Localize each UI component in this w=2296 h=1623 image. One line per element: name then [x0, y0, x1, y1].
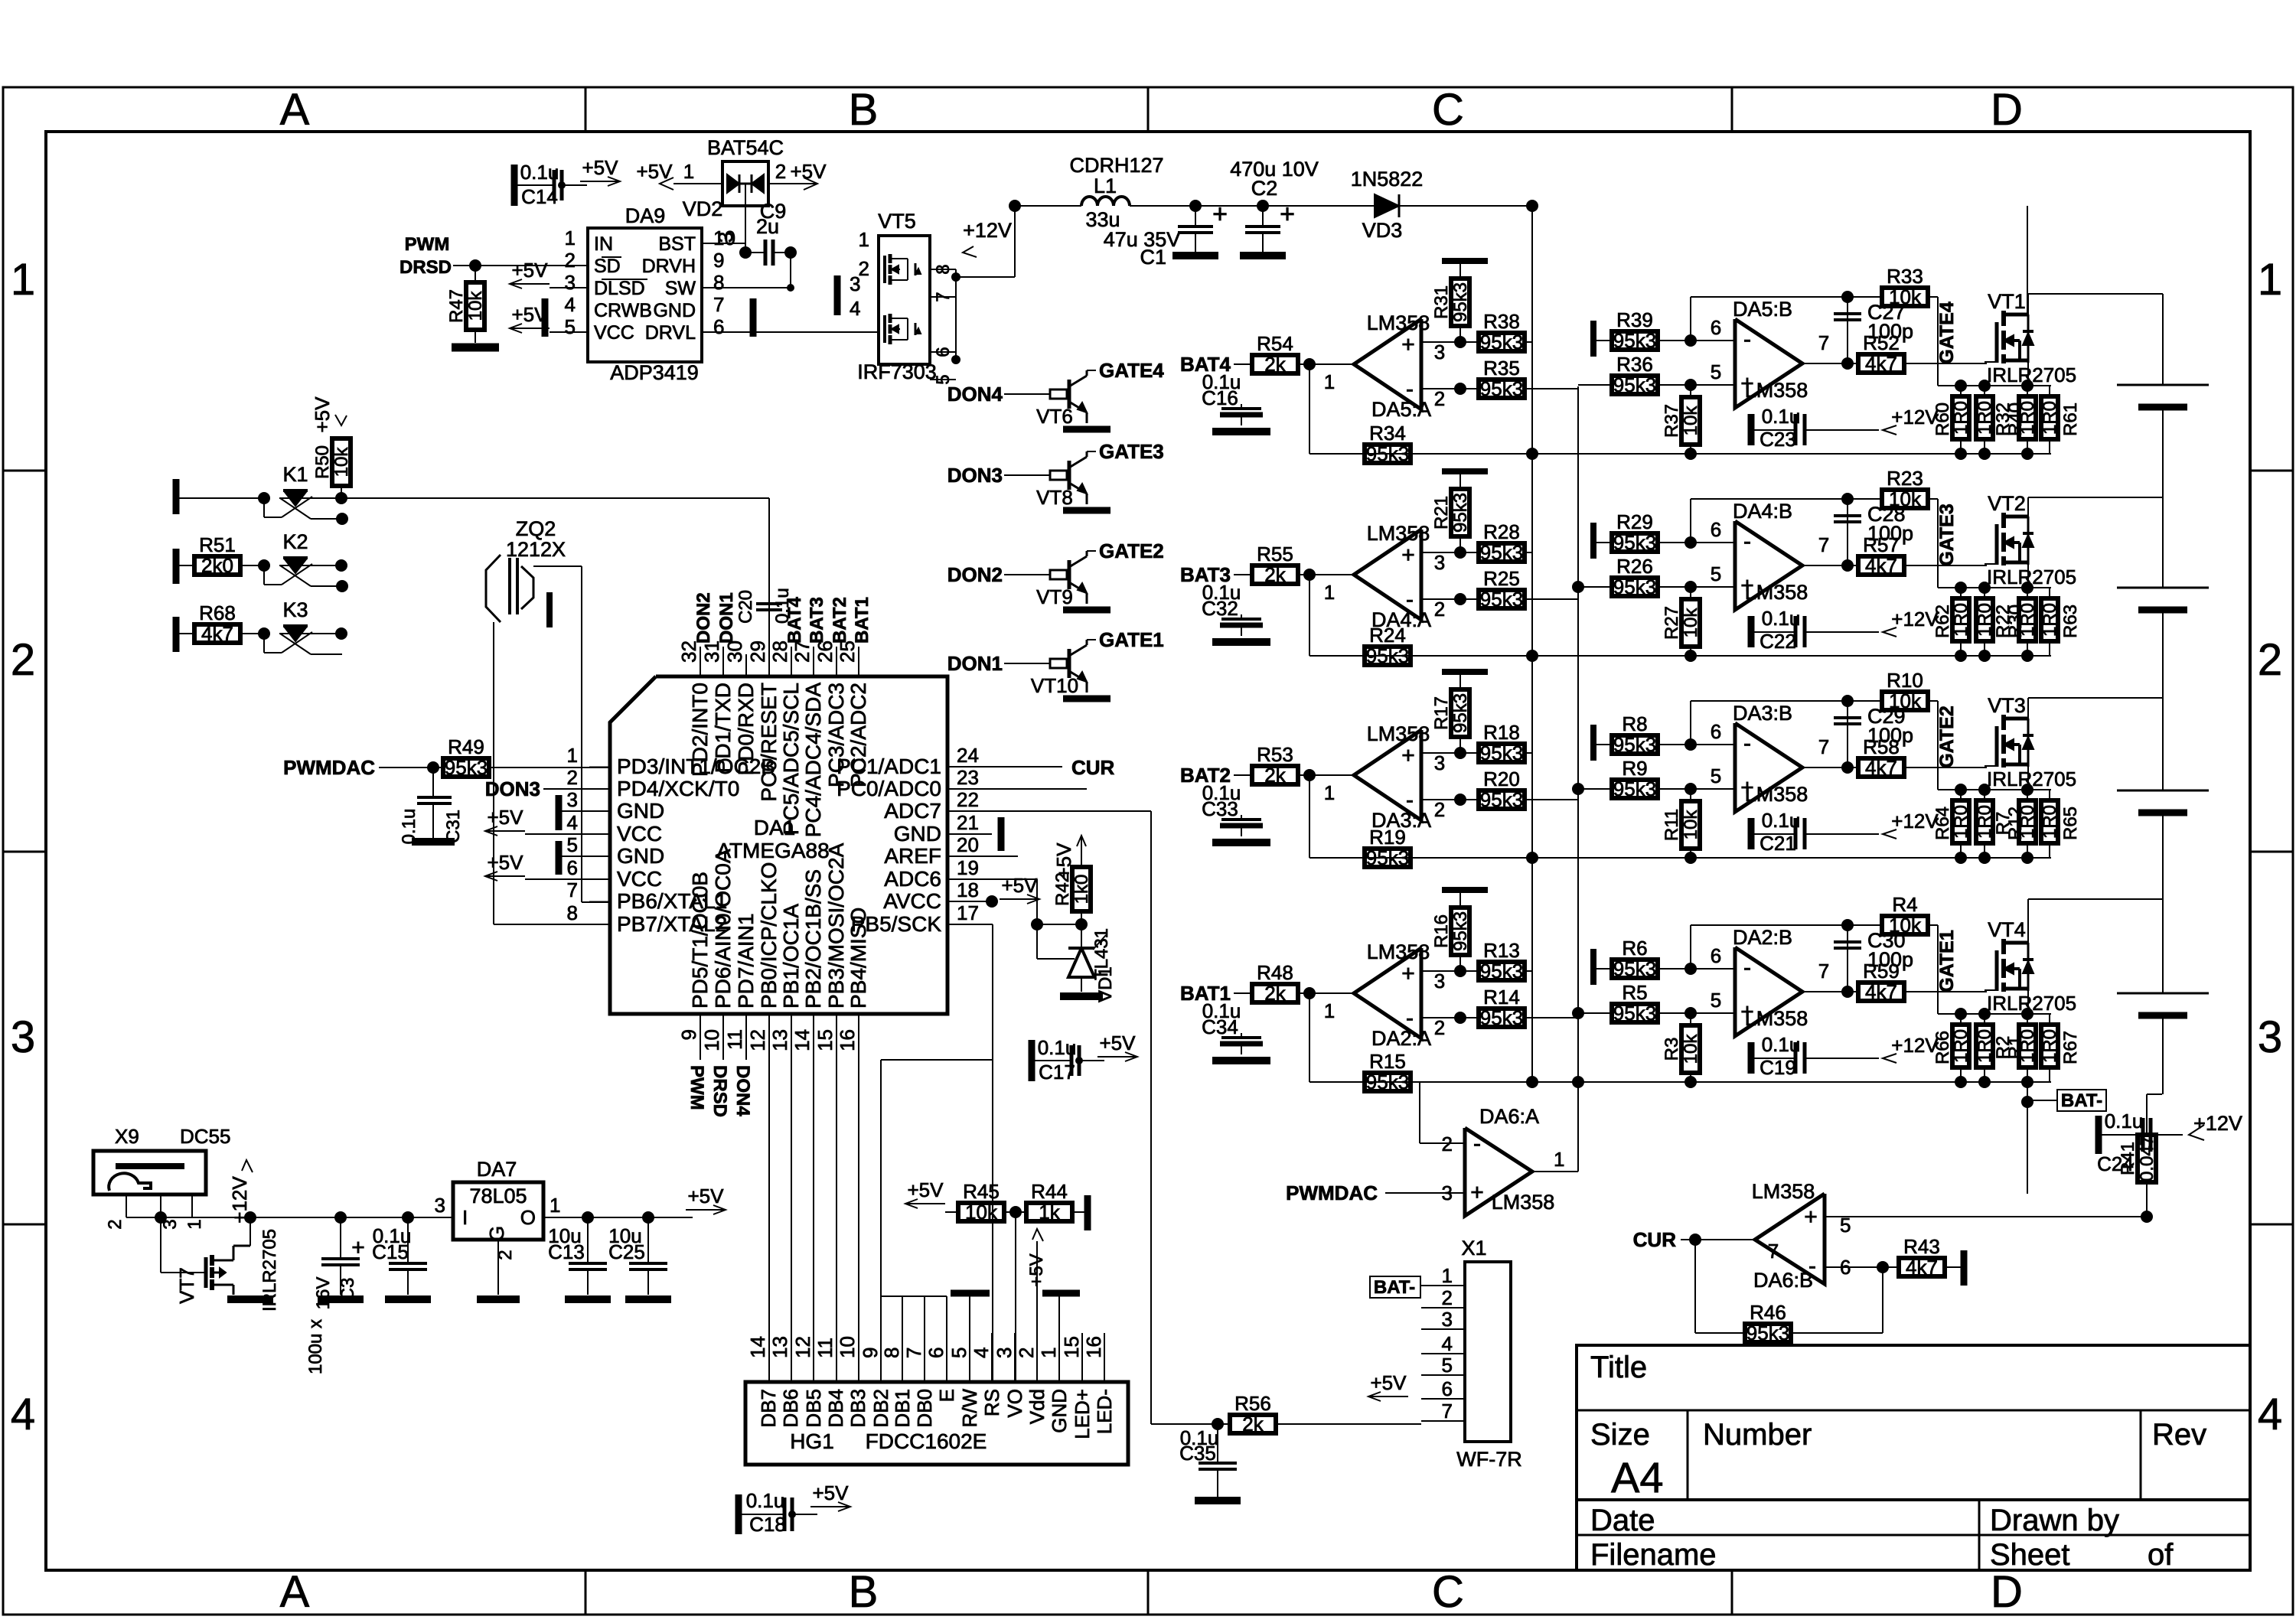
svg-text:C35: C35: [1179, 1442, 1216, 1465]
svg-text:O: O: [520, 1206, 536, 1229]
svg-text:3: 3: [1434, 551, 1445, 574]
svg-text:-: -: [1406, 1005, 1414, 1031]
svg-text:PC6/RESET: PC6/RESET: [757, 683, 781, 802]
svg-text:95k3: 95k3: [1746, 1322, 1789, 1344]
svg-text:C32: C32: [1202, 597, 1238, 620]
svg-text:C22: C22: [1760, 630, 1796, 653]
svg-text:R17: R17: [1431, 696, 1452, 730]
svg-text:LM358: LM358: [1745, 783, 1808, 806]
svg-text:C13: C13: [548, 1240, 585, 1263]
svg-text:D: D: [1991, 1567, 2023, 1617]
svg-text:E: E: [935, 1389, 958, 1402]
svg-text:1k: 1k: [1039, 1201, 1060, 1224]
svg-text:1: 1: [565, 227, 576, 249]
svg-text:GND: GND: [1048, 1389, 1071, 1433]
svg-text:2: 2: [1434, 598, 1445, 621]
svg-text:0.1u: 0.1u: [1762, 1033, 1801, 1056]
svg-text:ADC7: ADC7: [884, 799, 941, 823]
svg-text:10k: 10k: [965, 1201, 998, 1224]
svg-text:C1: C1: [1140, 246, 1166, 269]
svg-text:R33: R33: [1887, 265, 1923, 288]
svg-text:4: 4: [1442, 1332, 1453, 1355]
svg-text:IN: IN: [594, 233, 613, 255]
svg-text:GATE1: GATE1: [1936, 930, 1958, 992]
svg-text:10k: 10k: [331, 447, 352, 477]
svg-text:6: 6: [1711, 720, 1721, 743]
svg-text:1R0: 1R0: [2040, 401, 2060, 435]
svg-text:12: 12: [746, 1029, 769, 1051]
svg-text:R16: R16: [1431, 914, 1452, 948]
svg-text:2k: 2k: [1264, 764, 1286, 787]
svg-text:6: 6: [925, 1348, 947, 1358]
svg-text:C24: C24: [2097, 1152, 2134, 1175]
svg-text:DC55: DC55: [180, 1125, 230, 1148]
svg-text:GND: GND: [617, 844, 664, 868]
svg-text:PB1/OC1A: PB1/OC1A: [779, 904, 803, 1009]
svg-text:0.1u: 0.1u: [399, 809, 419, 845]
svg-text:95k3: 95k3: [1480, 377, 1523, 400]
svg-text:C16: C16: [1202, 386, 1238, 409]
svg-text:+5V: +5V: [512, 303, 549, 326]
svg-text:PWMDAC: PWMDAC: [283, 756, 375, 779]
svg-text:PB2/OC1B/SS: PB2/OC1B/SS: [801, 869, 825, 1009]
svg-text:95k3: 95k3: [1480, 541, 1523, 564]
svg-text:Rev: Rev: [2152, 1418, 2206, 1452]
svg-text:DA5:B: DA5:B: [1733, 298, 1792, 321]
svg-text:VCC: VCC: [617, 867, 662, 891]
svg-text:R12: R12: [2005, 807, 2026, 840]
svg-text:VT2: VT2: [1988, 492, 2026, 515]
svg-text:-: -: [1743, 327, 1751, 352]
svg-text:LM358: LM358: [1745, 379, 1808, 402]
svg-text:R4: R4: [1892, 893, 1917, 916]
svg-text:DON3: DON3: [485, 777, 540, 800]
svg-text:+5V: +5V: [1002, 874, 1039, 897]
svg-text:95k3: 95k3: [1366, 442, 1409, 465]
svg-text:DON4: DON4: [732, 1065, 753, 1116]
svg-text:4: 4: [970, 1348, 993, 1358]
svg-text:C2: C2: [1251, 177, 1278, 200]
svg-text:1N5822: 1N5822: [1351, 168, 1424, 191]
svg-text:1: 1: [683, 160, 694, 183]
svg-text:1R0: 1R0: [1975, 1029, 1995, 1063]
svg-text:21: 21: [957, 811, 979, 834]
svg-text:R20: R20: [1483, 768, 1520, 790]
svg-text:R5: R5: [1622, 981, 1647, 1004]
svg-text:-: -: [1473, 1131, 1481, 1156]
svg-text:5: 5: [1711, 562, 1721, 585]
svg-text:R64: R64: [1932, 807, 1953, 840]
svg-text:LM358: LM358: [1745, 581, 1808, 604]
svg-text:DB5: DB5: [802, 1389, 825, 1428]
svg-text:95k3: 95k3: [1366, 1071, 1409, 1093]
svg-text:2: 2: [105, 1219, 126, 1229]
svg-text:R46: R46: [1750, 1301, 1786, 1324]
svg-text:1R0: 1R0: [1951, 603, 1971, 637]
svg-text:DRVH: DRVH: [642, 256, 696, 277]
svg-text:95k3: 95k3: [1480, 331, 1523, 354]
svg-text:DA6:B: DA6:B: [1753, 1269, 1813, 1292]
svg-text:BAT4: BAT4: [784, 596, 805, 644]
svg-text:2: 2: [1015, 1348, 1038, 1358]
svg-text:VT3: VT3: [1988, 694, 2026, 717]
svg-text:DA7: DA7: [477, 1158, 517, 1181]
svg-text:Date: Date: [1590, 1504, 1655, 1537]
svg-text:LED-: LED-: [1093, 1389, 1116, 1434]
svg-text:C31: C31: [443, 810, 464, 843]
svg-text:R24: R24: [1369, 624, 1406, 647]
svg-text:Filename: Filename: [1590, 1538, 1717, 1572]
svg-text:DB4: DB4: [824, 1389, 847, 1428]
svg-text:5: 5: [567, 833, 578, 856]
svg-text:95k3: 95k3: [1450, 282, 1471, 322]
svg-text:5: 5: [1442, 1354, 1453, 1377]
svg-text:11: 11: [814, 1338, 837, 1358]
svg-text:19: 19: [957, 856, 979, 879]
svg-text:R45: R45: [963, 1180, 1000, 1203]
svg-text:GATE1: GATE1: [1099, 628, 1164, 651]
svg-text:5: 5: [1711, 989, 1721, 1012]
svg-text:10k: 10k: [1681, 810, 1701, 840]
svg-text:10: 10: [700, 1029, 723, 1051]
svg-text:R31: R31: [1431, 285, 1452, 319]
svg-text:VCC: VCC: [594, 322, 634, 344]
svg-text:10k: 10k: [1889, 689, 1922, 712]
svg-text:95k3: 95k3: [1480, 960, 1523, 983]
svg-text:A: A: [280, 85, 310, 135]
svg-text:B: B: [849, 85, 879, 135]
svg-text:95k3: 95k3: [1613, 329, 1656, 352]
svg-text:PD0/RXD: PD0/RXD: [734, 683, 758, 775]
svg-text:+: +: [1401, 743, 1415, 768]
svg-text:0.1u: 0.1u: [1762, 405, 1801, 428]
svg-text:R29: R29: [1616, 510, 1653, 533]
svg-text:R50: R50: [312, 445, 333, 479]
svg-text:1R0: 1R0: [1975, 603, 1995, 637]
svg-text:6: 6: [567, 856, 578, 879]
svg-text:1k0: 1k0: [1071, 875, 1092, 904]
svg-text:1: 1: [2258, 255, 2282, 305]
svg-text:-: -: [1406, 587, 1414, 612]
svg-text:-: -: [1743, 529, 1751, 554]
svg-text:R53: R53: [1257, 743, 1293, 766]
svg-text:R60: R60: [1932, 402, 1953, 436]
svg-text:R51: R51: [199, 533, 236, 556]
svg-text:R9: R9: [1622, 757, 1647, 780]
svg-text:D: D: [1991, 85, 2023, 135]
svg-text:6: 6: [1442, 1377, 1453, 1400]
svg-text:R37: R37: [1662, 404, 1682, 438]
svg-text:DB0: DB0: [913, 1389, 936, 1428]
svg-text:PD5/T1/OC0B: PD5/T1/OC0B: [688, 872, 712, 1009]
svg-text:5: 5: [1711, 764, 1721, 787]
svg-text:2: 2: [1434, 1016, 1445, 1039]
svg-text:C20: C20: [735, 590, 756, 624]
svg-text:LM358: LM358: [1752, 1180, 1815, 1203]
svg-text:+5V: +5V: [813, 1481, 850, 1504]
svg-text:R28: R28: [1483, 520, 1520, 543]
svg-text:4: 4: [565, 293, 576, 316]
svg-text:R/W: R/W: [958, 1389, 981, 1428]
svg-text:BAT1: BAT1: [852, 597, 872, 644]
svg-text:2u: 2u: [756, 215, 779, 238]
svg-text:5: 5: [947, 1348, 970, 1358]
svg-text:2: 2: [1442, 1286, 1453, 1309]
svg-text:PB0/ICP/CLKO: PB0/ICP/CLKO: [757, 862, 781, 1009]
svg-text:6: 6: [713, 315, 724, 338]
svg-text:BAT3: BAT3: [807, 597, 827, 644]
svg-text:+: +: [1401, 332, 1415, 357]
svg-text:0.1u: 0.1u: [1038, 1036, 1077, 1059]
svg-text:R21: R21: [1431, 496, 1452, 530]
svg-text:11: 11: [723, 1029, 746, 1050]
svg-text:LM358: LM358: [1367, 940, 1430, 963]
svg-text:PWMDAC: PWMDAC: [1286, 1181, 1378, 1204]
svg-text:DON2: DON2: [947, 563, 1003, 586]
svg-text:95k3: 95k3: [1366, 644, 1409, 667]
svg-text:7: 7: [713, 293, 724, 316]
svg-text:1R0: 1R0: [2040, 603, 2060, 637]
svg-text:0.1u: 0.1u: [1762, 607, 1801, 630]
svg-text:VT7: VT7: [175, 1267, 198, 1304]
svg-text:95k3: 95k3: [1613, 777, 1656, 800]
svg-text:1212X: 1212X: [506, 538, 566, 561]
svg-text:AVCC: AVCC: [883, 889, 941, 913]
svg-text:LM358: LM358: [1367, 522, 1430, 545]
svg-text:3: 3: [567, 788, 578, 811]
svg-text:+: +: [1280, 200, 1295, 229]
svg-text:C: C: [1432, 1567, 1464, 1617]
svg-text:PC3/ADC3: PC3/ADC3: [824, 683, 848, 787]
svg-text:R11: R11: [1662, 809, 1682, 841]
svg-text:16: 16: [836, 1029, 859, 1051]
svg-text:DLSD: DLSD: [594, 278, 645, 299]
svg-text:2: 2: [565, 249, 576, 272]
svg-text:0.047: 0.047: [2137, 1136, 2157, 1181]
svg-text:+5V: +5V: [1100, 1031, 1137, 1054]
svg-text:6: 6: [1711, 518, 1721, 541]
svg-text:GATE3: GATE3: [1936, 504, 1958, 566]
svg-text:7: 7: [1768, 1240, 1779, 1263]
svg-text:+5V: +5V: [688, 1185, 725, 1207]
svg-text:8: 8: [713, 271, 724, 294]
svg-text:2: 2: [2258, 635, 2282, 685]
svg-text:BAT-: BAT-: [2061, 1090, 2102, 1111]
svg-text:+5V: +5V: [488, 806, 524, 829]
svg-text:C18: C18: [749, 1513, 786, 1536]
svg-text:R48: R48: [1257, 961, 1293, 984]
svg-text:7: 7: [1442, 1400, 1453, 1423]
svg-text:+: +: [1401, 961, 1415, 986]
svg-text:1: 1: [1324, 370, 1335, 393]
svg-text:VT9: VT9: [1036, 585, 1073, 608]
svg-text:4: 4: [11, 1390, 35, 1439]
svg-text:ADP3419: ADP3419: [610, 361, 699, 384]
svg-text:1R0: 1R0: [1951, 401, 1971, 435]
svg-text:Title: Title: [1590, 1351, 1647, 1384]
svg-text:4k7: 4k7: [1865, 352, 1897, 375]
svg-text:B: B: [849, 1567, 879, 1617]
svg-text:DRVL: DRVL: [645, 322, 696, 344]
svg-text:Number: Number: [1703, 1418, 1812, 1452]
svg-text:95k3: 95k3: [1450, 493, 1471, 533]
svg-text:VT5: VT5: [878, 210, 916, 233]
svg-text:R38: R38: [1483, 310, 1520, 333]
svg-text:2: 2: [567, 766, 578, 789]
svg-text:C33: C33: [1202, 797, 1238, 820]
svg-text:+: +: [1212, 200, 1228, 229]
svg-text:3: 3: [565, 271, 576, 294]
svg-text:RS: RS: [980, 1389, 1003, 1416]
svg-text:24: 24: [957, 744, 979, 767]
svg-text:R56: R56: [1234, 1392, 1271, 1415]
svg-text:0.1u: 0.1u: [746, 1489, 785, 1512]
svg-text:+5V: +5V: [512, 259, 549, 282]
svg-text:C15: C15: [372, 1240, 409, 1263]
svg-text:PB3/MOSI/OC2A: PB3/MOSI/OC2A: [824, 842, 848, 1009]
svg-text:X1: X1: [1461, 1237, 1486, 1260]
svg-text:K2: K2: [282, 530, 308, 553]
svg-text:95k3: 95k3: [1450, 911, 1471, 951]
svg-text:DON1: DON1: [716, 592, 737, 644]
svg-text:BAT-: BAT-: [1374, 1277, 1415, 1298]
svg-text:GND: GND: [653, 300, 696, 321]
svg-text:R39: R39: [1616, 308, 1653, 331]
svg-text:+5V: +5V: [488, 851, 524, 874]
svg-text:PC4/ADC4/SDA: PC4/ADC4/SDA: [801, 683, 825, 838]
svg-text:1: 1: [859, 228, 869, 251]
svg-text:1: 1: [184, 1219, 205, 1229]
svg-text:GATE4: GATE4: [1099, 359, 1164, 382]
svg-text:4k7: 4k7: [1865, 554, 1897, 577]
svg-text:1: 1: [1324, 781, 1335, 804]
svg-text:10k: 10k: [465, 291, 486, 321]
svg-text:0.1u: 0.1u: [2105, 1110, 2144, 1133]
svg-text:C3: C3: [338, 1278, 358, 1302]
svg-text:CDRH127: CDRH127: [1069, 154, 1163, 177]
svg-text:PC5/ADC5/SCL: PC5/ADC5/SCL: [779, 683, 803, 835]
svg-text:8: 8: [880, 1348, 903, 1358]
svg-text:1R0: 1R0: [1951, 805, 1971, 839]
svg-text:PWM: PWM: [405, 234, 450, 255]
svg-text:16V: 16V: [313, 1277, 334, 1310]
svg-text:I: I: [462, 1206, 468, 1229]
svg-text:2: 2: [1434, 387, 1445, 410]
svg-text:2: 2: [1434, 798, 1445, 821]
svg-text:-: -: [1808, 1253, 1816, 1279]
svg-text:GATE2: GATE2: [1099, 539, 1164, 562]
svg-text:R23: R23: [1887, 467, 1923, 490]
svg-text:8: 8: [567, 901, 578, 924]
svg-text:R1: R1: [2005, 1036, 2026, 1060]
svg-text:4k7: 4k7: [1906, 1256, 1938, 1279]
svg-text:A: A: [280, 1567, 310, 1617]
svg-text:13: 13: [768, 1029, 791, 1051]
svg-text:R14: R14: [1483, 986, 1520, 1009]
svg-text:LM358: LM358: [1492, 1191, 1555, 1214]
svg-text:AREF: AREF: [884, 844, 941, 868]
svg-text:VD2: VD2: [683, 197, 723, 220]
svg-text:+: +: [1804, 1204, 1818, 1230]
svg-text:2: 2: [11, 635, 35, 685]
svg-text:C21: C21: [1760, 832, 1796, 855]
svg-text:2: 2: [775, 160, 786, 183]
svg-text:GND: GND: [894, 822, 941, 846]
svg-text:DB6: DB6: [779, 1389, 802, 1428]
svg-text:3: 3: [2258, 1012, 2282, 1062]
svg-text:PD7/AIN1: PD7/AIN1: [734, 914, 758, 1009]
svg-text:+: +: [1470, 1180, 1484, 1205]
svg-text:3: 3: [993, 1348, 1016, 1358]
svg-text:PC2/ADC2: PC2/ADC2: [846, 683, 870, 787]
svg-text:10k: 10k: [1681, 1034, 1701, 1064]
svg-text:LM358: LM358: [1367, 722, 1430, 745]
svg-text:+5V: +5V: [908, 1178, 944, 1201]
svg-text:R34: R34: [1369, 422, 1406, 445]
svg-text:DON1: DON1: [947, 652, 1003, 675]
svg-text:Vdd: Vdd: [1026, 1389, 1049, 1424]
svg-text:R65: R65: [2060, 807, 2081, 840]
svg-text:1: 1: [1324, 999, 1335, 1022]
svg-text:ZQ2: ZQ2: [516, 517, 556, 540]
svg-text:23: 23: [957, 766, 979, 789]
svg-text:R6: R6: [1622, 937, 1647, 960]
svg-text:95k3: 95k3: [1480, 788, 1523, 811]
svg-text:95k3: 95k3: [1480, 741, 1523, 764]
svg-text:15: 15: [1060, 1336, 1083, 1358]
svg-text:95k3: 95k3: [445, 756, 488, 779]
svg-text:VT10: VT10: [1031, 674, 1078, 697]
svg-text:7: 7: [1818, 331, 1829, 354]
svg-text:22: 22: [957, 788, 979, 811]
svg-text:VT1: VT1: [1988, 290, 2026, 313]
svg-text:PD6/AIN0/OC0A: PD6/AIN0/OC0A: [711, 849, 735, 1009]
svg-text:R68: R68: [199, 601, 236, 624]
svg-text:C: C: [1432, 85, 1464, 135]
svg-text:G: G: [485, 1226, 508, 1241]
svg-text:VO: VO: [1003, 1389, 1026, 1418]
svg-text:PD1/TXD: PD1/TXD: [711, 683, 735, 773]
svg-text:7: 7: [902, 1348, 925, 1358]
svg-text:R30: R30: [2005, 605, 2026, 638]
svg-text:4k7: 4k7: [201, 622, 233, 645]
svg-text:6: 6: [1711, 316, 1721, 339]
svg-text:4: 4: [850, 297, 860, 320]
svg-text:CUR: CUR: [1071, 756, 1115, 779]
svg-text:R40: R40: [2005, 402, 2026, 436]
svg-text:R3: R3: [1662, 1038, 1682, 1061]
svg-text:100u x: 100u x: [305, 1319, 326, 1374]
svg-text:+12V: +12V: [2193, 1112, 2242, 1135]
svg-text:+5V: +5V: [1371, 1371, 1407, 1394]
svg-text:20: 20: [957, 833, 979, 856]
svg-text:R35: R35: [1483, 357, 1520, 380]
svg-text:GATE3: GATE3: [1099, 440, 1164, 463]
svg-text:PD2/INT0: PD2/INT0: [688, 683, 712, 777]
svg-text:95k3: 95k3: [1480, 588, 1523, 611]
svg-text:CRWB: CRWB: [594, 300, 652, 321]
svg-text:95k3: 95k3: [1450, 693, 1471, 733]
svg-text:DON4: DON4: [947, 383, 1003, 406]
svg-text:DA2:B: DA2:B: [1733, 926, 1792, 949]
svg-text:R55: R55: [1257, 543, 1293, 565]
svg-text:ADC6: ADC6: [884, 867, 941, 891]
svg-text:LM358: LM358: [1367, 311, 1430, 334]
svg-text:DA9: DA9: [625, 204, 666, 227]
svg-text:95k3: 95k3: [1613, 733, 1656, 756]
svg-text:R25: R25: [1483, 567, 1520, 590]
svg-text:13: 13: [768, 1336, 791, 1358]
